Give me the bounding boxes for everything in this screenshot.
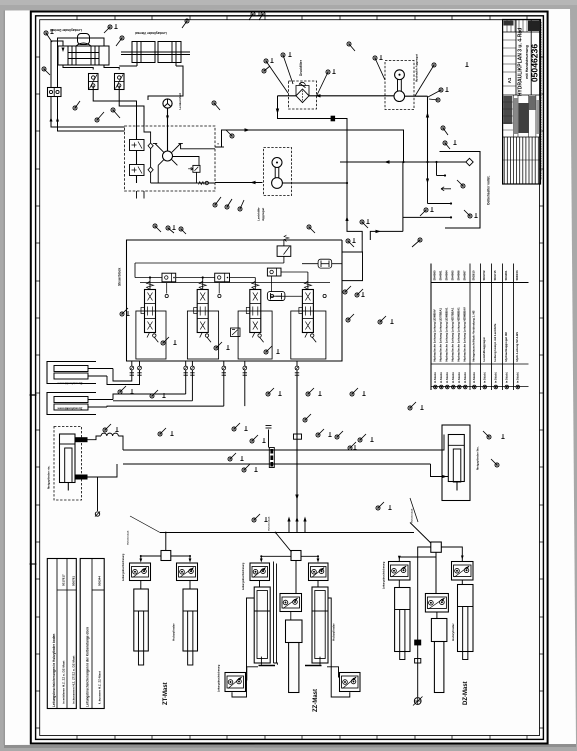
balloon label leader — [266, 346, 272, 352]
ports T P on right side — [215, 146, 224, 148]
Druckfilter box dashed — [289, 81, 317, 109]
tank feed wires — [427, 162, 429, 204]
ZZ wires to center cylinder — [290, 612, 292, 621]
balloon label leader — [163, 337, 169, 343]
valve sub-box 4 — [291, 311, 326, 359]
svg-text:f. äussere H.Z. ZZ-Mast: f. äussere H.Z. ZZ-Mast — [98, 671, 102, 704]
DZ line-break valve left — [389, 562, 411, 581]
wire Vierrad right down to junction — [148, 72, 183, 100]
ZZ lower right valve wiring — [327, 667, 340, 677]
wire pilot to return — [196, 172, 198, 183]
steering column — [167, 108, 169, 151]
svg-text:Lenkzylinder Dreirad: Lenkzylinder Dreirad — [50, 28, 82, 32]
svg-text:Leitungsbruchsicherung: Leitungsbruchsicherung — [242, 562, 245, 590]
ball joint link — [78, 34, 90, 45]
balloon label leader — [378, 502, 384, 508]
tank suction arrow — [441, 187, 451, 191]
svg-text:SN4985: SN4985 — [451, 270, 455, 281]
ZT distributor block — [161, 551, 171, 561]
svg-text:in äusseren H.Z. ZT/ZZ u. DZ-M: in äusseren H.Z. ZT/ZZ u. DZ-Mast — [72, 656, 76, 704]
tank internal stubs — [437, 175, 446, 177]
ZZ line-break valve lower right — [340, 673, 361, 692]
DZ center line-break valve — [425, 594, 448, 613]
balloon label leader — [491, 459, 497, 465]
cylinder Neigzylinder lks. body — [448, 435, 464, 482]
note table 2 — [80, 559, 104, 709]
filter symbol diamond — [296, 89, 309, 103]
tilt stub with fitting — [268, 430, 270, 448]
tilt long line B — [123, 463, 431, 465]
balloon label leader — [420, 210, 426, 216]
balloon label leader — [116, 38, 122, 46]
ZZ wires valves to cylinders — [259, 581, 261, 588]
svg-text:in Stückl.: in Stückl. — [458, 372, 461, 383]
tilt long line A — [123, 449, 431, 451]
balloon label leader — [181, 229, 186, 234]
svg-text:Leitung kompl. mit Lenkhilfe: Leitung kompl. mit Lenkhilfe — [493, 323, 497, 361]
ZZ center line-break valve — [280, 594, 302, 612]
balloon label leader — [345, 286, 351, 292]
shuttle block b — [215, 273, 230, 282]
DZ feed diagonal — [410, 523, 431, 544]
balloon label leader — [348, 314, 354, 320]
svg-text:Hydraulische Leitung Leitung H: Hydraulische Leitung Leitung HZ/HBBAV — [463, 307, 467, 361]
svg-text:Hydraulische Leitung Leitung L: Hydraulische Leitung Leitung LE/7BBA1 — [439, 307, 443, 361]
balloon label leader — [168, 228, 174, 233]
balloon label leader — [443, 128, 448, 135]
legend table — [431, 282, 529, 284]
title block small text cells — [503, 136, 541, 138]
ZT line-break valve left — [130, 563, 151, 581]
balloon label leader — [155, 226, 161, 232]
balloon label leader — [318, 429, 324, 435]
relief valve main — [277, 246, 291, 257]
steering unit internal wires — [136, 126, 138, 140]
balloon label leader — [483, 431, 489, 437]
balloon label leader — [105, 424, 111, 430]
border ticks left/right — [36, 56, 40, 58]
svg-text:in Stückl.: in Stückl. — [446, 372, 449, 383]
DZ drain end symbol — [414, 698, 421, 705]
balloon label leader — [104, 27, 110, 33]
wire to pilot valve — [177, 157, 199, 166]
balloon label leader — [360, 434, 366, 440]
balloon label leader — [412, 240, 420, 247]
P T gallery verticals — [361, 240, 363, 252]
legend row 10 — [502, 264, 504, 391]
svg-text:mit Handsteuerung: mit Handsteuerung — [525, 45, 529, 79]
page left edge — [3, 11, 5, 746]
three riser arrows — [288, 521, 290, 533]
bulkhead fitting on tilt lines — [269, 448, 274, 468]
valve V2 (tilt) — [197, 290, 208, 333]
note table 1 — [47, 559, 76, 709]
tilt wiring right bracket — [431, 435, 445, 451]
balloon label leader — [464, 210, 470, 216]
steering valve element left top — [130, 140, 145, 151]
svg-text:SN0153: SN0153 — [515, 270, 519, 281]
cylinder Zusatzfunktionen 1 — [47, 362, 96, 384]
svg-text:Leitungsbruchsicherung: Leitungsbruchsicherung — [383, 561, 386, 589]
internal gallery wires — [135, 277, 162, 279]
Hydraulik-Aggregat box dashed — [385, 61, 414, 110]
balloon label leader — [252, 435, 258, 441]
svg-text:506344: 506344 — [98, 576, 102, 586]
lift supply line from block down — [296, 376, 298, 531]
steering wheel symbol — [163, 99, 172, 108]
valve block pair under Dreirad cylinder — [89, 74, 99, 90]
legend row 7 — [469, 264, 471, 391]
DZ wires valves to cylinders — [398, 580, 400, 588]
balloon label leader — [337, 431, 343, 437]
supply line down from filter to control block — [278, 96, 363, 240]
tank top line with breather diamond — [340, 161, 466, 163]
breather diamond symbol — [466, 158, 473, 165]
balloon label leader — [234, 423, 240, 429]
balloon label leader — [357, 289, 363, 295]
balloon label leader — [249, 14, 253, 20]
svg-text:Hydraulische Leitung Leitung L: Hydraulische Leitung Leitung LE/HBBA1 — [445, 307, 449, 362]
valve V1 (lift) — [145, 290, 156, 333]
valve block 2 — [115, 74, 125, 90]
svg-text:in Stückl.: in Stückl. — [440, 372, 443, 383]
svg-text:Hubzylinder: Hubzylinder — [451, 622, 455, 641]
svg-text:in Stückl.: in Stückl. — [495, 372, 498, 383]
balloon label leader — [268, 388, 274, 394]
balloon label leader — [308, 388, 314, 394]
balloon label leader — [317, 72, 328, 95]
balloon label leader — [113, 110, 120, 118]
valve sub-box 3 — [238, 311, 272, 359]
gerotor X wings — [155, 144, 164, 153]
svg-text:Hydraulische Leitung Leitung L: Hydraulische Leitung Leitung LE/HBAV — [433, 309, 437, 361]
ZT wires valve to cylinder — [140, 581, 142, 590]
steering unit box dashed — [125, 126, 216, 191]
valve sub-box 2 — [187, 311, 218, 359]
svg-text:Steuerblock: Steuerblock — [118, 268, 122, 286]
svg-text:Neigzylinder rts.: Neigzylinder rts. — [47, 465, 51, 489]
wires aux ports — [223, 377, 225, 406]
gerotor circle X — [163, 151, 173, 161]
ZT Hubzylinder right — [183, 589, 198, 651]
svg-text:5017917: 5017917 — [62, 574, 66, 586]
balloon label leader — [283, 55, 293, 84]
pump suction line to tank line — [405, 95, 428, 97]
balloon label leader — [240, 200, 244, 209]
ZZ center Hubzylinder — [286, 620, 303, 643]
port fittings below block — [131, 361, 133, 366]
svg-text:Leitungsbruchsicherung: Leitungsbruchsicherung — [122, 553, 125, 581]
component H2 — [267, 292, 285, 301]
ZZ wires outer cyl to lower valves — [260, 657, 262, 665]
balloon label leader — [75, 101, 80, 108]
svg-text:SN4984: SN4984 — [445, 270, 449, 281]
shuttle block a — [162, 273, 176, 282]
balloon label leader — [445, 143, 450, 149]
svg-text:Leitungsbruchsicherungen in de: Leitungsbruchsicherungen in der Kolbenst… — [86, 627, 90, 707]
balloon label leader — [352, 388, 358, 394]
ZZ wrap wires — [248, 598, 254, 667]
svg-text:DZ-Mast: DZ-Mast — [463, 681, 469, 705]
balloon label leader — [215, 197, 221, 205]
ZZ outer cylinder left — [254, 587, 270, 663]
ZZ distribution wires — [261, 556, 291, 560]
balloon label leader — [375, 58, 385, 80]
svg-text:SN4981: SN4981 — [439, 270, 443, 281]
balloon label leader — [120, 386, 126, 392]
balloon label leader — [428, 90, 441, 97]
ZZ bottom plates — [259, 665, 276, 667]
ZT Hubzylinder left — [134, 589, 149, 651]
svg-text:SN2610: SN2610 — [472, 270, 476, 281]
balloon label leader — [349, 44, 355, 51]
cylinder Lenkzylinder Dreirad — [58, 46, 109, 65]
balloon label leader — [254, 514, 260, 520]
border ticks top/bottom — [76, 16, 78, 20]
svg-text:SN1702: SN1702 — [482, 270, 486, 281]
valve V4 (aux2) — [302, 290, 313, 333]
valve sub-box 1 — [136, 311, 166, 359]
balloon label leader — [266, 61, 288, 93]
svg-text:A1: A1 — [507, 77, 512, 83]
svg-text:Lenkzylinder Vierrad: Lenkzylinder Vierrad — [135, 31, 166, 35]
DZ feed from main line — [398, 519, 400, 523]
fold mark — [30, 394, 37, 396]
svg-text:in Stückl.: in Stückl. — [484, 372, 487, 383]
svg-text:Verteilerstück: Verteilerstück — [268, 516, 271, 531]
position number marks — [51, 29, 53, 34]
wire bottom left riser — [157, 165, 159, 183]
svg-text:Hydraulische Leitung Leitung H: Hydraulische Leitung Leitung HZ/7BBA1 — [451, 307, 455, 361]
svg-text:Hydraulische Leitung Leitung H: Hydraulische Leitung Leitung HZ/HBBA1 — [457, 307, 461, 362]
svg-text:Verteilerstück: Verteilerstück — [411, 508, 414, 523]
svg-text:Druckfilter: Druckfilter — [299, 59, 303, 76]
steering return line to top-right — [215, 130, 404, 162]
svg-text:in Stückl.: in Stückl. — [517, 372, 520, 383]
main pump circle — [394, 91, 405, 102]
cylinder Neigzylinder rts. box dashed — [54, 427, 82, 501]
legend row 11 — [513, 264, 515, 391]
svg-text:in Stückl.: in Stückl. — [473, 372, 476, 383]
balloon label leader — [227, 199, 232, 207]
DZ outer cylinder right — [458, 585, 474, 652]
ZZ line-break valve upper left — [250, 563, 270, 581]
title block left column cells — [503, 39, 516, 41]
balloon label leader — [152, 390, 158, 396]
svg-text:Hubzylinder: Hubzylinder — [172, 622, 176, 641]
ZZ lower left valve wiring — [247, 667, 259, 673]
legend row 9 — [491, 264, 493, 391]
svg-text:in Stückl.: in Stückl. — [434, 372, 437, 383]
steering valve element left bottom — [130, 165, 145, 176]
svg-text:SN4980: SN4980 — [433, 270, 437, 281]
tank outline — [440, 152, 481, 229]
title block — [503, 20, 541, 185]
wire bottom return gallery — [151, 182, 215, 184]
ZZ line-break valve lower left — [225, 673, 246, 692]
tilt cylinder ports hatched — [76, 437, 88, 442]
filter bypass check valve — [296, 86, 309, 96]
balloon label leader — [244, 464, 250, 470]
balloon label leader — [309, 227, 315, 233]
balloon label leader — [216, 342, 222, 348]
svg-text:in Stückl.: in Stückl. — [506, 372, 509, 383]
balloon label leader — [410, 402, 416, 408]
DZ center Hubzylinder — [431, 619, 447, 642]
balloon label leader — [97, 112, 104, 120]
DZ outer cylinder left — [395, 588, 410, 652]
svg-text:in Stückl.: in Stückl. — [464, 372, 467, 383]
check valve diamond b — [148, 167, 153, 173]
ZZ outer cylinder right — [312, 587, 328, 663]
legend row 8 — [480, 264, 482, 391]
wires Zusatz1 to block — [113, 369, 132, 382]
cylinder Neigzylinder lks. box — [442, 425, 470, 501]
steering pressure line to aggregat pump — [215, 182, 263, 184]
balloon label leader — [44, 69, 50, 75]
svg-text:in mittleren H.Z. ZZ u. DZ-Mas: in mittleren H.Z. ZZ u. DZ-Mast — [62, 661, 66, 704]
aux component A — [231, 328, 241, 337]
hose coupling on supply line — [331, 116, 336, 122]
ZT distribution wires — [141, 556, 161, 561]
wires Zusatz2 to block — [185, 377, 187, 394]
balloon label leader — [46, 33, 52, 42]
balloon label leader — [362, 222, 368, 228]
balloon label leader — [350, 442, 356, 448]
balloon label leader — [226, 130, 232, 136]
balloon label leader — [415, 65, 434, 96]
balloon label leader — [380, 316, 386, 322]
svg-text:ZZ-Mast: ZZ-Mast — [313, 689, 319, 712]
cylinder Zusatzfunktionen 2 — [47, 393, 96, 415]
balloon label leader — [264, 66, 270, 71]
steering pilot valve right — [193, 165, 200, 172]
cylinder Neigzylinder rts. body — [60, 434, 76, 483]
balloon label leader — [348, 241, 354, 247]
main distributor line — [160, 532, 414, 534]
balloon label leader — [230, 453, 236, 459]
wire left margin feed — [51, 41, 63, 88]
svg-text:Hydr. Leitung SZ-4-HS: Hydr. Leitung SZ-4-HS — [515, 332, 519, 362]
svg-text:SN1715: SN1715 — [493, 270, 497, 281]
balloon label leader — [122, 308, 128, 314]
DZ line-break valve right — [452, 562, 474, 581]
wires blocks down to steering unit — [93, 86, 136, 127]
steering unit bottom stubs — [136, 191, 138, 199]
check valve diamond a — [148, 143, 153, 149]
electric motor circle — [272, 158, 282, 168]
balloon label leader — [259, 14, 263, 20]
Steuerblock outer box — [127, 240, 343, 361]
DZ distributor block — [431, 542, 442, 552]
component H block — [318, 259, 332, 268]
check valve block left margin — [48, 88, 62, 97]
svg-text:SN4987: SN4987 — [463, 270, 467, 281]
svg-text:05046236: 05046236 — [530, 44, 540, 82]
balloon label leader — [182, 21, 187, 28]
svg-text:Heisgetauscht Hydr.-Verbindung: Heisgetauscht Hydr.-Verbindung 1. HS — [472, 310, 476, 361]
svg-text:Verteilerstück: Verteilerstück — [127, 530, 130, 545]
cylinder Lenkzylinder Vierrad — [132, 42, 155, 63]
ZZ center feed verticals — [273, 562, 275, 664]
svg-text:Lenkhilfeaggregat: Lenkhilfeaggregat — [482, 337, 486, 361]
svg-text:Hydraulik-Aggregat: Hydraulik-Aggregat — [415, 54, 419, 82]
relief spring-ball symbol WO — [199, 182, 205, 185]
svg-text:Aggregat: Aggregat — [261, 208, 265, 221]
svg-text:Lenkeinheit: Lenkeinheit — [178, 93, 182, 110]
svg-text:Hubzylinder: Hubzylinder — [332, 622, 336, 641]
balloon label leader — [429, 99, 438, 100]
DZ distribution wires — [418, 547, 431, 557]
svg-text:Hydraulikaggregat 4M: Hydraulikaggregat 4M — [504, 332, 508, 362]
balloon label leader — [214, 103, 220, 110]
svg-text:SN1901: SN1901 — [504, 270, 508, 281]
svg-text:SN4986: SN4986 — [457, 270, 461, 281]
svg-text:Neigzylinder lks.: Neigzylinder lks. — [476, 446, 480, 470]
balloon label leader — [160, 428, 166, 434]
ZZ line-break valve upper right — [309, 563, 329, 581]
valve V3 (aux1) — [250, 290, 261, 333]
main pressure line pump-filter — [278, 95, 297, 97]
svg-text:ZT-Mast: ZT-Mast — [163, 682, 169, 705]
motor circle M — [395, 70, 405, 80]
ZZ distributor block — [291, 551, 301, 561]
svg-text:506781: 506781 — [72, 576, 76, 586]
svg-text:Oelbehaelter vollst.: Oelbehaelter vollst. — [487, 175, 491, 205]
ZT line-break valve right — [177, 563, 198, 581]
svg-text:Leitungsbruchsicherungen in Hu: Leitungsbruchsicherungen in Hubzylinder … — [52, 634, 56, 707]
wires left check block — [50, 97, 52, 125]
copyright notice micro-text — [541, 22, 543, 180]
balloon label leader — [457, 180, 463, 186]
tilt wiring left with hose loops — [88, 436, 102, 440]
shuttle block c — [267, 268, 281, 276]
wires steering cylinders to blocks — [63, 65, 93, 70]
wire T gallery — [181, 144, 215, 149]
svg-text:in Stückl.: in Stückl. — [452, 372, 455, 383]
balloon label leader — [305, 414, 311, 420]
Steuerblock box bump right — [342, 252, 363, 281]
DZ drain line with inline fittings — [417, 557, 419, 697]
pump circle — [272, 178, 283, 189]
drain port below tilt cyl — [97, 477, 99, 511]
pump outlet wire right — [282, 182, 347, 184]
svg-text:Leitungsbruchsicherung: Leitungsbruchsicherung — [218, 664, 221, 692]
Lenkhilfe-Aggregat box — [264, 148, 292, 196]
revision table stripes — [503, 137, 505, 184]
tank return from Steuerblock — [370, 231, 403, 240]
svg-text:HYDRAULIKPLAN 3 u. 4-Rad: HYDRAULIKPLAN 3 u. 4-Rad — [518, 28, 524, 96]
